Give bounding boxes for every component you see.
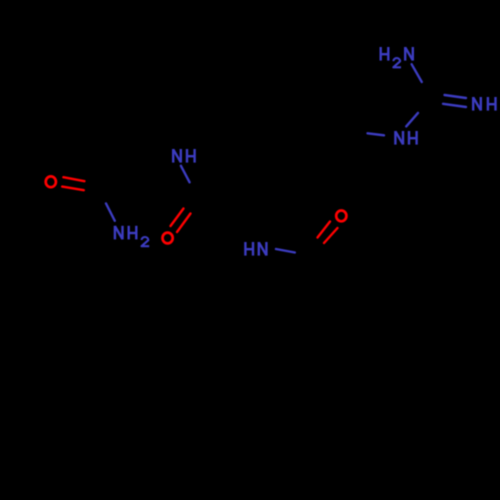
atom N4 label H2N (guanidine amine) bbox=[381, 47, 413, 61]
atom O1 (left amide carbonyl oxygen) bbox=[46, 176, 56, 187]
bond CH2-N6 (blue half, horizontal) bbox=[368, 133, 385, 135]
bond C2=O2 double bond (red half, two lines) bbox=[171, 209, 191, 233]
bond N4-C4 (blue half) bbox=[412, 64, 422, 82]
atom N2 subscript 2 bbox=[142, 237, 150, 246]
bond C4=N5 double bond (blue half, two lines) bbox=[443, 95, 466, 107]
bond N3-C3 (blue half) bbox=[276, 249, 295, 253]
atom N6 label NH (guanidine NH linking to chain) bbox=[395, 131, 416, 145]
bond C4-N6 (blue half) bbox=[406, 113, 418, 127]
bond C1-N2 (blue half) bbox=[106, 204, 115, 221]
atom O3 (acyl carbonyl oxygen) bbox=[336, 211, 346, 222]
bond C3=O3 double bond (red half, two lines) bbox=[318, 222, 338, 244]
atom N4 subscript 2 bbox=[393, 58, 401, 67]
atom N5 label NH (guanidine imine =NH) bbox=[473, 97, 495, 111]
atom O2 (backbone carbonyl oxygen) bbox=[163, 233, 173, 244]
atom N1 label NH (backbone amide NH upper-left) bbox=[173, 149, 194, 163]
atom N2 label NH2 (primary amide) bbox=[115, 226, 136, 240]
bond C1=O1 double bond (red half, two lines) bbox=[62, 177, 84, 190]
atom N3 label HN (acyl amide NH center) bbox=[245, 242, 266, 256]
bond N1-C2 (blue half) bbox=[181, 166, 190, 183]
